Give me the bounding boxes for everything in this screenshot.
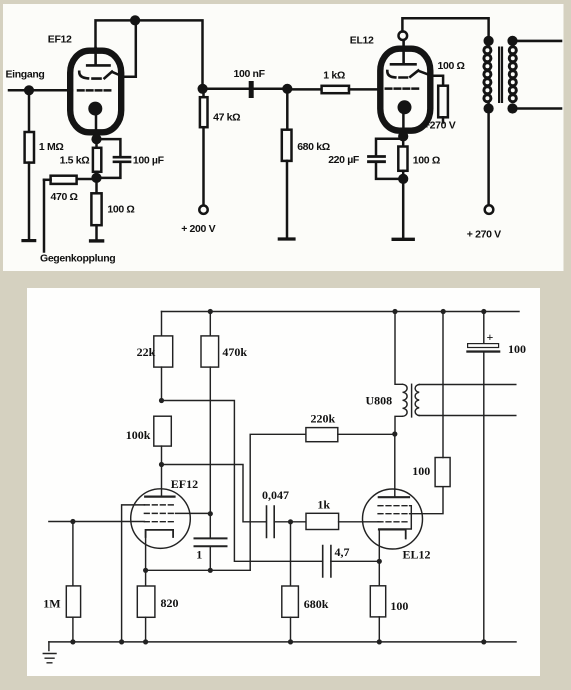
node coupling junction	[198, 84, 208, 94]
svg-text:100 µF: 100 µF	[133, 155, 165, 167]
terminal bar 680 kΩ	[279, 237, 294, 240]
capacitor 4,7	[323, 546, 331, 578]
capacitor 220 µF	[369, 157, 385, 162]
transformer U808 primary wire	[395, 312, 403, 435]
label 0,047	[262, 488, 289, 502]
label 4,7	[335, 545, 350, 559]
label 100 screen	[412, 464, 430, 478]
svg-text:22k: 22k	[137, 345, 156, 359]
capacitor 100 electrolytic lead bottom	[483, 353, 485, 642]
bottom schematic panel	[27, 288, 540, 676]
terminal + 200 V	[199, 206, 207, 214]
transformer core	[498, 47, 503, 104]
node primary bottom	[484, 103, 494, 113]
label 470k	[222, 345, 247, 359]
capacitor 100 electrolytic lead top	[483, 312, 485, 344]
capacitor 100 nF	[249, 81, 254, 98]
label 1 kΩ	[323, 69, 345, 81]
svg-text:+: +	[487, 330, 494, 344]
svg-text:4,7: 4,7	[335, 545, 350, 559]
wire 0,047 to 1k	[274, 521, 306, 523]
wire to terminal bar	[402, 179, 405, 238]
EF12 grid g3 dashed	[144, 504, 175, 506]
resistor 100 Ω EL12 cathode	[398, 136, 407, 179]
resistor 470 Ω	[44, 176, 97, 184]
svg-text:0,047: 0,047	[262, 488, 289, 502]
node EF12 cathode bottom	[91, 173, 101, 183]
svg-text:100 Ω: 100 Ω	[438, 60, 465, 72]
resistor 22k	[154, 312, 173, 401]
svg-text:100: 100	[508, 342, 526, 356]
wire bottom rail	[49, 641, 516, 643]
wire EF12 g3 to ground	[122, 505, 145, 642]
EF12 grid g2 dashed	[144, 512, 175, 514]
resistor 1k	[306, 513, 378, 529]
terminal bar EF12 cathode	[91, 239, 103, 242]
node top rail 100 screen	[441, 309, 446, 314]
transformer U808 secondary coil	[415, 385, 419, 416]
label 100 cap	[508, 342, 526, 356]
EF12 grid g1 dashed	[78, 89, 113, 92]
svg-text:470 Ω: 470 Ω	[51, 191, 78, 203]
EL12 grid g2 dashed	[387, 71, 418, 78]
svg-text:100k: 100k	[126, 428, 151, 442]
label 820	[161, 596, 179, 610]
node input junction	[24, 85, 34, 95]
svg-text:+ 270 V: + 270 V	[467, 229, 501, 241]
label 1	[196, 548, 202, 562]
node EL12 cathode junction	[398, 131, 408, 141]
node rail 100	[377, 639, 382, 644]
wire 220k feedback drop	[250, 434, 306, 570]
EL12 grid g1 dashed	[378, 521, 410, 523]
svg-text:U808: U808	[366, 394, 393, 408]
node input 1M junction	[70, 519, 75, 524]
tube EF12 envelope	[131, 489, 191, 549]
node top rail 470k	[208, 309, 213, 314]
label 47 kΩ	[213, 111, 240, 123]
label 680 kΩ	[297, 141, 330, 153]
EL12 anode	[391, 40, 416, 64]
EL12 cathode	[398, 100, 412, 136]
EF12 anode	[87, 48, 109, 65]
wire EL12 cathode lead	[378, 530, 380, 562]
wire cathode bus	[146, 569, 251, 571]
wire coupling	[203, 88, 288, 91]
resistor 100 Ω EF12 cathode	[91, 178, 101, 239]
wire secondary top	[419, 384, 516, 386]
node top rail transformer	[392, 309, 397, 314]
node secondary top	[507, 36, 517, 46]
label 220k	[311, 412, 336, 426]
resistor 1 MΩ	[25, 90, 34, 239]
wire EL12 anode lead	[394, 434, 396, 497]
label +270 V	[424, 119, 456, 131]
svg-text:EL12: EL12	[403, 548, 431, 562]
node EF12 screen junction	[208, 511, 213, 516]
wire grid input	[49, 521, 144, 523]
wire 100 µF branch	[97, 139, 121, 178]
svg-text:100: 100	[412, 464, 430, 478]
label 100 µF	[133, 155, 165, 167]
wire EF12 g2 to top rail	[113, 20, 136, 76]
node EL12 cathode junction	[377, 559, 382, 564]
wire anode to 0,047	[162, 465, 267, 522]
svg-text:100 nF: 100 nF	[234, 68, 266, 80]
ground	[43, 642, 56, 663]
wire anode to transformer	[402, 18, 488, 41]
svg-text:EF12: EF12	[171, 477, 198, 491]
node rail 100 cap	[481, 639, 486, 644]
svg-text:1k: 1k	[317, 498, 330, 512]
svg-text:100 Ω: 100 Ω	[413, 154, 440, 166]
transformer T1 secondary coil	[509, 47, 516, 102]
top schematic panel	[3, 4, 564, 271]
label plus	[487, 330, 494, 344]
svg-text:Gegenkopplung: Gegenkopplung	[40, 253, 115, 265]
svg-text:220k: 220k	[311, 412, 336, 426]
node secondary bottom	[507, 103, 517, 113]
node EF12 anode junction	[159, 462, 164, 467]
resistor 820	[137, 570, 155, 642]
label EF12 bottom	[171, 477, 198, 491]
node 1k junction	[288, 519, 293, 524]
resistor 100 cathode	[370, 561, 385, 642]
node 1-cap bottom	[208, 568, 213, 573]
label 470 Ω	[51, 191, 78, 203]
svg-text:1 MΩ: 1 MΩ	[39, 141, 64, 153]
EF12 grid g1 dashed	[144, 521, 175, 523]
resistor 1.5 kΩ	[93, 139, 101, 178]
node EF12 cathode junction	[91, 134, 101, 144]
terminal bar 1 MΩ	[23, 239, 35, 242]
capacitor 100 electrolytic plus plate	[468, 344, 499, 348]
label EL12 bottom	[403, 548, 431, 562]
label 100 Ω screen	[438, 60, 465, 72]
node EL12 cathode bottom	[398, 174, 408, 184]
EF12 cathode	[146, 530, 174, 537]
EL12 grid g1 dashed	[386, 87, 419, 90]
transformer T1 primary coil	[484, 47, 491, 102]
label 1.5 kΩ	[60, 155, 90, 167]
svg-text:47 kΩ: 47 kΩ	[213, 111, 240, 123]
tube EL12 envelope	[363, 489, 423, 549]
terminal bar EL12 cathode	[393, 238, 413, 241]
label EL12	[350, 35, 374, 47]
label 100 Ω EF12 cathode	[107, 204, 134, 216]
wire EF12 anode to top rail	[96, 20, 203, 85]
resistor 100 Ω screen	[438, 86, 448, 123]
wire Gegenkopplung	[43, 180, 46, 252]
label 1M	[43, 596, 60, 610]
svg-text:1M: 1M	[43, 596, 60, 610]
wire input	[9, 89, 72, 92]
capacitor 100 µF	[114, 157, 130, 162]
capacitor 100 electrolytic minus plate	[466, 350, 500, 352]
node anode-screen junction	[130, 15, 140, 25]
wire 220 µF branch	[376, 139, 403, 179]
resistor 100 screen	[435, 312, 450, 487]
wire secondary out bottom	[513, 107, 562, 110]
resistor 470k	[201, 312, 219, 514]
wire 4,7 to EL12 cathode	[331, 560, 379, 562]
label + 270 V	[467, 229, 501, 241]
transformer T1 primary wire	[487, 41, 490, 205]
label Eingang	[6, 69, 45, 81]
label 100 nF	[234, 68, 266, 80]
wire secondary bottom	[419, 415, 516, 417]
tube EF12 envelope	[70, 51, 121, 133]
node 22k-100k junction	[159, 398, 164, 403]
svg-text:Eingang: Eingang	[6, 69, 45, 81]
resistor 47 kΩ	[200, 89, 208, 206]
EL12 grid g2 dashed	[378, 513, 410, 515]
wire EL12 g2 to 100	[410, 487, 443, 514]
label EF12	[48, 34, 72, 46]
wire EF12 cathode lead	[145, 530, 147, 570]
svg-text:+270 V: +270 V	[424, 119, 456, 131]
node top rail 100 cap	[481, 309, 486, 314]
capacitor 0,047	[267, 506, 275, 538]
resistor 1 kΩ	[287, 86, 377, 93]
wire divider to 4,7 cap	[162, 401, 323, 562]
node rail 1M	[70, 639, 75, 644]
node rail 820	[143, 639, 148, 644]
svg-text:EF12: EF12	[48, 34, 72, 46]
wire top rail	[162, 311, 520, 313]
tube EL12 envelope	[380, 49, 430, 131]
wire EL12 g3 tie	[379, 506, 412, 529]
label 680k	[304, 597, 329, 611]
label 100 cathode	[390, 599, 408, 613]
EL12 cathode	[379, 530, 406, 539]
svg-text:470k: 470k	[222, 345, 247, 359]
svg-text:100 Ω: 100 Ω	[107, 204, 134, 216]
svg-text:+ 200 V: + 200 V	[181, 223, 215, 235]
label 100 Ω EL12 cathode	[413, 154, 440, 166]
transformer U808 primary coil	[403, 384, 408, 416]
svg-text:220 µF: 220 µF	[328, 154, 360, 166]
resistor 680k	[282, 522, 299, 642]
svg-text:1.5 kΩ: 1.5 kΩ	[60, 155, 90, 167]
label 220 µF	[328, 154, 360, 166]
node rail g3	[119, 639, 124, 644]
node EF12 cathode junction	[143, 568, 148, 573]
svg-text:EL12: EL12	[350, 35, 374, 47]
wire EF12 anode lead	[161, 465, 163, 497]
label 1 MΩ	[39, 141, 64, 153]
resistor 680 kΩ	[282, 89, 292, 238]
node EL12 anode junction	[392, 431, 397, 436]
wire EL12 g2 to screen resistor	[419, 71, 443, 86]
node primary top	[484, 36, 494, 46]
resistor 220k	[306, 428, 338, 442]
node rail 680k	[288, 639, 293, 644]
transformer U808 core	[411, 384, 413, 417]
wire 220k to EL12 anode	[338, 433, 395, 435]
terminal anode cap	[399, 31, 408, 40]
svg-text:680 kΩ: 680 kΩ	[297, 141, 330, 153]
label 22k	[137, 345, 156, 359]
label U808	[366, 394, 393, 408]
label 100k	[126, 428, 151, 442]
EF12 anode	[145, 496, 174, 498]
capacitor 1	[195, 514, 227, 571]
resistor 100k	[154, 416, 172, 464]
svg-text:100: 100	[390, 599, 408, 613]
EL12 anode	[379, 496, 409, 498]
wire EF12 g2 to junction	[176, 512, 211, 514]
wire secondary out top	[513, 40, 562, 43]
svg-text:1 kΩ: 1 kΩ	[323, 69, 345, 81]
svg-text:680k: 680k	[304, 597, 329, 611]
node 680k junction	[282, 84, 292, 94]
EF12 cathode	[88, 102, 102, 140]
terminal + 270 V	[485, 205, 494, 214]
label 1k	[317, 498, 330, 512]
EL12 grid g3 dashed	[378, 505, 410, 507]
EF12 grid g2 dashed	[79, 72, 112, 79]
svg-text:1: 1	[196, 548, 202, 562]
svg-text:820: 820	[161, 596, 179, 610]
label + 200 V	[181, 223, 215, 235]
resistor 1M	[66, 522, 80, 642]
label Gegenkopplung	[40, 253, 115, 265]
